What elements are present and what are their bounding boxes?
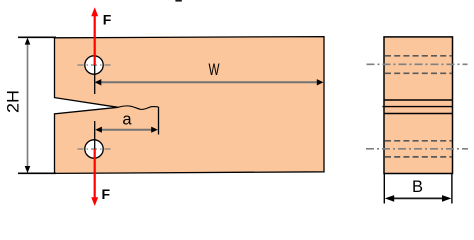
specimen body (front view with V-notch) [55,37,325,174]
hidden hole lines (dashed) top hole [385,55,452,57]
svg-text:a: a [122,111,132,129]
B dimension line [388,197,448,199]
svg-text:W: W [209,60,220,79]
W dimension line [97,81,322,83]
force arrow F bottom (red, downward) [94,149,96,199]
top hole [85,56,103,74]
bottom hole [85,140,103,158]
2H dimension: top extension line [18,36,56,38]
a dimension: crack tip extension line [158,107,160,135]
B dimension: right extension line [451,174,453,204]
2H dimension line [27,40,29,171]
bottom hole centerline [78,148,112,150]
a dimension line [97,129,156,131]
hidden hole lines (dashed) bottom hole [385,140,452,142]
side view block [384,37,453,174]
svg-text:F: F [102,186,111,202]
svg-text:2H: 2H [4,90,23,113]
top hole centerline (dash-dot) [367,63,468,65]
top hole centerline [78,64,112,66]
notch edge lines (solid) [384,99,453,101]
fatigue crack wavy line [118,106,159,110]
B dimension: left extension line [383,174,385,204]
vertical load line (between holes) [94,65,96,94]
svg-text:F: F [103,12,112,28]
2H dimension: bottom extension line [18,172,56,174]
force arrow F top (red, upward) [94,15,96,65]
svg-text:B: B [412,178,423,196]
cropped text artifact top [175,0,181,2]
bottom hole centerline (dash-dot) [366,148,468,150]
